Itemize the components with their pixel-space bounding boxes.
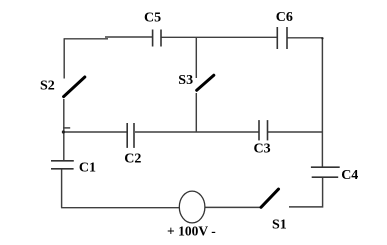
svg-text:S1: S1 <box>272 217 287 232</box>
svg-text:C1: C1 <box>79 161 96 176</box>
svg-text:+ 100V -: + 100V - <box>167 223 216 238</box>
svg-text:C6: C6 <box>276 10 293 25</box>
svg-text:C3: C3 <box>254 142 271 157</box>
svg-text:C2: C2 <box>124 152 141 167</box>
svg-text:C5: C5 <box>144 11 161 26</box>
svg-text:C4: C4 <box>341 168 358 183</box>
svg-text:S2: S2 <box>40 78 55 93</box>
svg-text:S3: S3 <box>178 73 193 88</box>
